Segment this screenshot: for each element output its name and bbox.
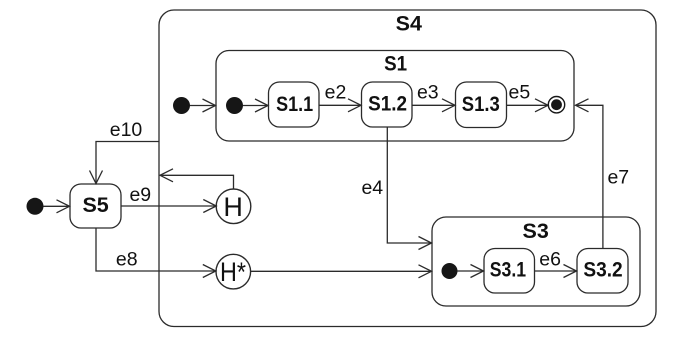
svg-text:S3.1: S3.1 [490,258,526,282]
state S4 (composite) [159,10,656,327]
transition: H default to S4 border [160,169,234,189]
initial pseudostate (top level) [27,198,44,215]
state S1 (composite) [216,51,574,142]
svg-text:e8: e8 [116,248,138,270]
transition e9: S5 to history H [121,200,216,213]
transition e2: S1.1 to S1.2 [319,99,361,112]
svg-text:e3: e3 [417,82,439,104]
svg-text:S1: S1 [384,51,407,75]
svg-text:S1.3: S1.3 [462,92,500,116]
svg-text:S3.2: S3.2 [583,258,622,282]
initial pseudostate (inside S3) [442,263,458,279]
transition: H* to S3 [251,265,432,278]
transition e10: S4 border to S5 [90,142,160,184]
transition e8: S5 down to deep history H* [96,228,216,278]
transition e6: S3.1 to S3.2 [535,265,577,278]
svg-text:H: H [223,192,243,222]
svg-text:e10: e10 [110,119,143,141]
transition: S4 initial to S1 [190,99,216,112]
state S1.1 [269,82,320,127]
state S3.1 [484,249,535,294]
svg-text:S1.1: S1.1 [276,92,313,116]
transition e7: S3.2 up to S1 border [576,99,603,249]
transition e5: S1.3 to final state [507,99,549,112]
svg-text:e4: e4 [361,177,383,199]
history pseudostate H* [216,254,251,289]
state S1.2 [362,82,413,127]
transition: S1 initial to S1.1 [243,99,268,112]
svg-text:e9: e9 [129,184,151,206]
state S5 [70,184,121,228]
initial pseudostate (inside S1) [226,97,243,114]
transition: initial to S5 [44,200,70,213]
svg-text:H*: H* [220,257,246,287]
initial pseudostate (inside S4) [173,97,190,114]
state S1.3 [456,82,507,128]
svg-text:e5: e5 [509,82,531,104]
state S3 (composite) [432,217,640,306]
svg-text:S4: S4 [396,12,422,36]
transition e3: S1.2 to S1.3 [412,99,455,112]
transition: S3 initial to S3.1 [458,265,484,278]
svg-text:e6: e6 [539,248,561,270]
final state (inside S1) [548,97,564,113]
transition e4: S1.2 down to S3 [387,128,431,250]
history pseudostate H [216,189,251,224]
svg-text:e7: e7 [607,167,629,189]
svg-text:S1.2: S1.2 [368,92,407,116]
state S3.2 [577,249,628,294]
svg-text:e2: e2 [325,82,347,104]
svg-text:S3: S3 [523,219,549,243]
svg-text:S5: S5 [82,193,108,217]
